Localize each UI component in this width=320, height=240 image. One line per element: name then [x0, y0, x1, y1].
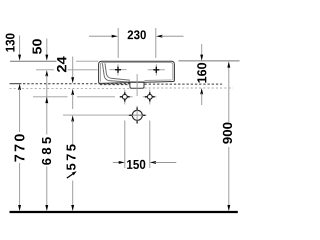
dimension 130 / 770 line: [18, 36, 21, 212]
floor line: [10, 211, 238, 213]
tap hole crosshair right: [148, 64, 165, 75]
label 900: [223, 123, 232, 144]
label 770: [15, 134, 25, 161]
dimension 900: [227, 61, 230, 211]
label 160: [197, 63, 206, 83]
label 24: [57, 56, 66, 72]
basin inner rim line: [100, 63, 172, 82]
drain box top edge: [128, 81, 145, 83]
leader arrow for 575: [67, 171, 77, 178]
fixing hole target right: [143, 90, 157, 105]
label 50: [32, 39, 41, 54]
under-basin dashes: [100, 84, 130, 86]
wire: gray dashed level line: [10, 87, 234, 89]
wire: trap level line: [63, 114, 146, 116]
wire: tap level line right segment: [68, 69, 98, 71]
label 575: [67, 144, 76, 170]
dimension 230: [89, 28, 184, 58]
dimension 50 / 685 line: [45, 39, 48, 212]
label 130: [6, 34, 15, 52]
dimension 150: [113, 121, 177, 169]
trap outlet circle: [128, 106, 146, 124]
drain axis line: [136, 74, 138, 96]
wire: rim top extension line left (light part): [76, 60, 98, 62]
wire: tap level line left segment: [36, 69, 54, 71]
label 685: [42, 137, 51, 165]
label 150: [127, 160, 145, 169]
drain box below basin: [130, 82, 144, 88]
basin bowl profile: [102, 63, 130, 82]
tap hole crosshair left: [109, 64, 126, 75]
wire: rim top extension line right: [179, 60, 240, 62]
basin outline: [99, 61, 175, 83]
wire: fixing hole level line: [33, 96, 115, 98]
fixing hole target left: [120, 90, 133, 105]
wire: dark dashed level line: [10, 83, 223, 85]
wire: rim top extension line left (dark part): [10, 60, 57, 62]
dimension 24 / 575 line: [71, 57, 74, 212]
dimension 160: [200, 44, 203, 105]
label 230: [128, 30, 146, 39]
